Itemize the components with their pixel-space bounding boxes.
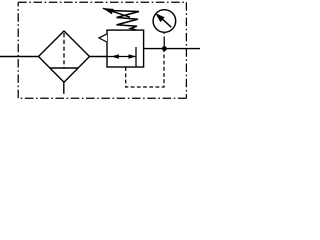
wire: filter to regulator <box>90 56 108 58</box>
regulator R1: left arrowhead <box>111 54 119 59</box>
regulator R1: valve box <box>107 30 144 67</box>
regulator R1: adjustment arrow shaft <box>103 8 130 17</box>
filter F1: drain stub <box>63 82 65 94</box>
filter F1: diamond body <box>39 31 90 82</box>
gauge G1: needle arrowhead <box>155 13 164 22</box>
gauge G1: dashed connector <box>163 33 165 47</box>
filter F1: water separator chord <box>50 67 78 69</box>
gauge G1: needle shaft <box>158 15 172 28</box>
regulator R1: right arrowhead <box>129 54 137 59</box>
enclosure dash-dot boundary <box>18 2 186 98</box>
regulator R1: adjustment arrowhead <box>102 8 113 14</box>
filter F1: condensate dashed center line <box>63 33 65 68</box>
pilot sensing dashed line <box>126 51 164 87</box>
regulator R1: relief vent triangle <box>99 34 107 42</box>
wire: inlet line port 1 <box>0 56 39 58</box>
regulator R1: adjustment spring zigzag <box>110 11 139 31</box>
node: junction dot on outlet <box>162 46 167 51</box>
regulator R1: valve seat vertical <box>135 47 137 67</box>
gauge G1: dial circle <box>153 10 176 33</box>
regulator R1: flow path shaft <box>107 56 136 58</box>
wire: outlet line port 2 <box>144 48 200 50</box>
